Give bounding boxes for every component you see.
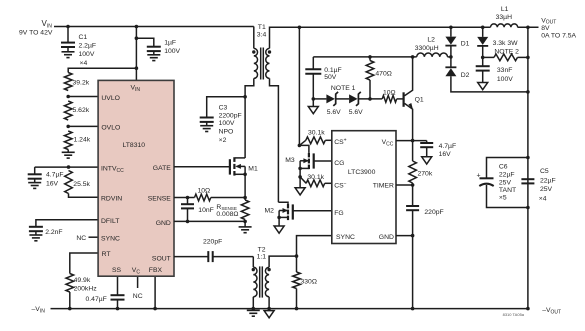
wire SENSE [174, 197, 195, 199]
wire SS [117, 276, 119, 295]
node timer rail junction [411, 307, 415, 311]
pin SOUT label [152, 255, 171, 262]
node SENSE junction [186, 196, 190, 200]
svg-text:1µF: 1µF [164, 40, 176, 47]
svg-text:200kHz: 200kHz [74, 285, 98, 292]
node M1 source dot [243, 173, 247, 177]
transistor M1 [230, 157, 245, 175]
svg-text:LTC3900: LTC3900 [348, 169, 376, 176]
svg-text:NC: NC [76, 235, 86, 242]
label VOUT [541, 17, 576, 39]
label D1 [461, 40, 470, 47]
core T1 [261, 48, 264, 80]
label 5.62k [73, 107, 90, 114]
svg-text:D1: D1 [461, 40, 470, 47]
pin GATE label [153, 165, 171, 172]
wire 1uF branch [136, 38, 153, 47]
wire DFILT [36, 220, 98, 227]
label LTC3900 [348, 169, 376, 176]
wire T1 secondary bottom to M2 [270, 78, 279, 202]
wire C3 branch [207, 97, 245, 118]
pin FG label [334, 210, 343, 217]
label C5 value [539, 168, 556, 203]
wire zener anode [313, 98, 326, 100]
wire divider top [68, 68, 136, 72]
svg-text:8V: 8V [541, 25, 550, 32]
capacitor C5 [521, 179, 534, 183]
resistor 30.1k bottom [300, 177, 332, 187]
label 1uF value [164, 40, 180, 56]
svg-text:TANT: TANT [499, 187, 516, 194]
ground triangle 33nF [478, 71, 488, 90]
label figure number [503, 312, 525, 317]
label 5.6V right [349, 109, 363, 116]
wire C6 top [487, 158, 528, 179]
wire 4.7uF to ground [34, 179, 36, 183]
svg-text:10nF: 10nF [198, 207, 214, 214]
node VIN-C1 junction [66, 25, 70, 29]
inductor L1 [490, 24, 517, 27]
node 470ohm bottom junction [368, 97, 372, 101]
pin GND label [156, 220, 171, 227]
op-amp U1 LT8310 body [98, 80, 174, 276]
label NOTE 1 [331, 85, 356, 92]
svg-text:9V TO 42V: 9V TO 42V [19, 30, 53, 37]
svg-text:330Ω: 330Ω [301, 278, 317, 285]
svg-text:22µF: 22µF [499, 172, 515, 179]
svg-text:33nF: 33nF [497, 67, 513, 74]
label 220pF sout [203, 239, 222, 246]
svg-text:C1: C1 [79, 34, 88, 41]
pin RT label [102, 251, 111, 258]
svg-text:470Ω: 470Ω [375, 71, 391, 78]
capacitor C6 [477, 173, 494, 187]
pin UVLO label [101, 95, 120, 102]
pin SYNC label LTC [336, 234, 355, 241]
svg-text:5.62k: 5.62k [73, 107, 90, 114]
svg-text:NOTE 1: NOTE 1 [331, 85, 356, 92]
node C6 bottom junction [526, 206, 530, 210]
wire GATE to M1 [174, 166, 230, 168]
wire T1 secondary top [270, 27, 300, 48]
svg-text:GATE: GATE [153, 165, 171, 172]
ground RSENSE [239, 221, 252, 232]
wire C1 stub [67, 27, 69, 43]
label M3 [285, 157, 295, 164]
wire TIMER [396, 184, 413, 186]
svg-text:SS: SS [112, 267, 122, 274]
svg-text:GND: GND [379, 234, 394, 241]
label M2 [265, 208, 275, 215]
node T1 primary phase dot [252, 50, 255, 53]
node GND LTC junction [411, 234, 415, 238]
node VOUT junction [526, 26, 530, 30]
svg-text:T1: T1 [258, 24, 266, 31]
wire 1uF to ground [153, 51, 155, 55]
node snubber rail junction [481, 26, 485, 30]
node SS rail junction [116, 307, 120, 311]
capacitor 1uF [147, 47, 161, 51]
diode D2 [445, 67, 456, 76]
svg-text:4.7µF: 4.7µF [46, 172, 64, 179]
resistor 25.5k [65, 171, 73, 194]
ground 2.2nF [29, 235, 42, 241]
wire secondary top rail [270, 26, 539, 28]
pin GND label LTC [379, 234, 394, 241]
diode Z1 5.6V zener [326, 92, 338, 106]
wire M3 to ground [299, 177, 301, 188]
wire T2 secondary bottom [268, 297, 270, 309]
label NC VC [133, 293, 143, 300]
wire UVLO [68, 96, 98, 98]
label 470ohm [375, 71, 391, 78]
transformer T2 label [257, 247, 267, 261]
svg-text:SENSE: SENSE [148, 195, 172, 202]
capacitor 2.2nF [29, 227, 43, 231]
label 10ohm sense [198, 187, 211, 194]
pin CG label [334, 160, 344, 167]
wire SYNC net [297, 236, 332, 257]
wire 220pF to T2 [213, 256, 254, 258]
label -VIN [32, 306, 46, 314]
wire D1 from rail [450, 27, 452, 36]
winding T1 primary [254, 48, 258, 78]
svg-text:3.3k 3W: 3.3k 3W [493, 40, 519, 47]
node M3 drain junction [298, 144, 302, 148]
label L1 [496, 6, 512, 21]
label 4.7uF VCC [439, 143, 457, 158]
winding T2 primary [253, 267, 257, 297]
ground C3 [200, 126, 213, 132]
wire 2.2nF to ground [35, 231, 37, 235]
node C3 junction [243, 95, 247, 99]
svg-text:33µH: 33µH [496, 14, 512, 21]
wire timer cap to rail [412, 210, 414, 308]
capacitor 10nF [181, 198, 194, 222]
node M3 CS- junction [298, 175, 302, 179]
svg-text:50V: 50V [324, 74, 337, 81]
svg-text:10Ω: 10Ω [198, 187, 211, 194]
label C3 value [219, 105, 242, 144]
label 49.9k 200kHz [74, 277, 98, 292]
svg-text:M2: M2 [265, 208, 275, 215]
node 3.3k output junction [526, 56, 530, 60]
label L2 [415, 37, 439, 53]
wire GND LTC [396, 235, 413, 237]
wire node to D2 [450, 57, 452, 67]
svg-text:16V: 16V [46, 181, 59, 188]
svg-text:L1: L1 [501, 6, 509, 13]
node T2 secondary phase dot [267, 268, 270, 271]
pin VCC label [382, 139, 394, 147]
svg-text:×5: ×5 [499, 194, 507, 201]
svg-text:100V: 100V [497, 76, 513, 83]
pin TIMER label [373, 182, 394, 189]
pin OVLO label [101, 125, 120, 132]
wire RDVIN [69, 194, 99, 198]
ground T2 primary [247, 310, 260, 316]
wire GND pin [174, 220, 245, 222]
ground triangle M3 [295, 188, 305, 195]
wire FG [293, 210, 332, 212]
wire CG [314, 160, 332, 162]
label 1.24k [74, 137, 91, 144]
wire bottom rail [51, 308, 529, 310]
svg-text:1.24k: 1.24k [74, 137, 91, 144]
node D2 output junction [526, 90, 530, 94]
capacitor 220pF timer [406, 185, 419, 210]
node rail M3 junction [298, 26, 302, 30]
svg-text:D2: D2 [461, 72, 470, 79]
wire OVLO [68, 125, 98, 127]
svg-text:VIN: VIN [42, 19, 53, 29]
svg-text:1:1: 1:1 [257, 254, 267, 261]
node T2 primary rail dot [252, 307, 256, 311]
wire zener middle [336, 98, 349, 100]
svg-text:5.6V: 5.6V [327, 109, 341, 116]
node OVLO tap [66, 125, 70, 129]
ground 4.7uF [28, 183, 41, 189]
node Q1 collector junction [411, 55, 415, 59]
node FBX rail junction [153, 307, 157, 311]
diode D3 snubber [477, 37, 488, 46]
node UVLO divider top junction [135, 66, 139, 70]
resistor 470ohm [366, 57, 374, 99]
svg-text:TIMER: TIMER [373, 182, 394, 189]
ground triangle zener [308, 99, 318, 114]
svg-text:NC: NC [133, 293, 143, 300]
svg-text:5.6V: 5.6V [349, 109, 363, 116]
wire snubber from rail [482, 27, 484, 37]
node VIN column junction [135, 25, 139, 29]
wire SYNC to 330ohm [296, 256, 298, 272]
wire 330ohm to rail [296, 289, 298, 309]
svg-text:4.7µF: 4.7µF [439, 143, 457, 150]
label 2.2nF [45, 229, 62, 236]
ground triangle M2 [274, 226, 284, 233]
capacitor 0.47uF [111, 295, 125, 299]
wire 0.1uF column [312, 57, 314, 69]
node C6 top junction [526, 156, 530, 160]
svg-text:LT8310: LT8310 [123, 142, 146, 149]
svg-text:SOUT: SOUT [152, 255, 171, 262]
label C6 value [499, 163, 516, 201]
op-amp U2 LTC3900 body [332, 131, 396, 244]
transistor M3 [299, 145, 313, 169]
svg-text:NOTE 2: NOTE 2 [494, 48, 519, 55]
node D1 D2 junction [449, 55, 453, 59]
label 3.3k 3W [493, 40, 520, 55]
label 10nF [198, 207, 214, 214]
winding T2 secondary [265, 267, 269, 297]
svg-text:Q1: Q1 [415, 96, 424, 103]
transistor M2 [278, 202, 292, 220]
pin FBX label [149, 267, 163, 274]
svg-text:–VIN: –VIN [32, 306, 46, 314]
label 330ohm [301, 278, 317, 285]
svg-text:100V: 100V [164, 48, 180, 55]
wire M1 source down [244, 174, 246, 200]
diode D1 [445, 37, 456, 46]
svg-text:L2: L2 [427, 37, 435, 44]
svg-text:C3: C3 [219, 105, 228, 112]
svg-text:10Ω: 10Ω [383, 89, 396, 96]
label D2 [461, 72, 470, 79]
wire RT [70, 253, 98, 274]
svg-text:22µF: 22µF [540, 177, 556, 184]
node RT rail junction [68, 307, 72, 311]
resistor 30.1k top [299, 137, 331, 146]
capacitor 220pF sout [208, 251, 212, 262]
svg-text:16V: 16V [439, 151, 452, 158]
svg-text:T2: T2 [258, 247, 266, 254]
label 25.5k [73, 181, 90, 188]
label 10ohm base [383, 89, 396, 96]
transformer T1 label [257, 24, 267, 38]
pin VIN label [131, 85, 141, 93]
label NC SYNC [76, 235, 86, 242]
pin RDVIN label [101, 196, 122, 203]
resistor 5.62k [64, 101, 72, 120]
node UVLO tap [66, 95, 70, 99]
node T1 secondary phase dot [268, 50, 271, 53]
ground divider bottom [62, 150, 75, 159]
wire D1 to node [450, 46, 452, 57]
node RSENSE bottom dot [243, 220, 247, 224]
svg-text:220pF: 220pF [203, 239, 222, 246]
wire VIN column [135, 27, 137, 81]
node M2 source dot [277, 216, 281, 220]
pin CS+ label [334, 138, 346, 146]
wire SOUT [174, 256, 208, 258]
node snubber junction [481, 56, 485, 60]
wire T1 primary top [253, 27, 255, 49]
svg-text:M3: M3 [285, 157, 295, 164]
wire T2 primary top [252, 257, 254, 268]
svg-text:8310 TA05a: 8310 TA05a [503, 312, 525, 317]
wire mid rail [313, 56, 416, 58]
winding T1 secondary [266, 48, 270, 78]
node VIN input label [19, 19, 53, 37]
node zener anode junction [312, 97, 316, 101]
label Q1 [415, 96, 424, 103]
svg-text:M1: M1 [248, 165, 258, 172]
wire FBX [154, 276, 156, 308]
pin DFILT label [101, 218, 119, 225]
resistor 330ohm [293, 272, 301, 289]
wire T2 primary bottom [252, 297, 254, 309]
node 330ohm rail dot [295, 307, 299, 311]
node INTVCC junction [67, 165, 71, 169]
wire D2 anode to output column [451, 76, 528, 92]
svg-text:+: + [477, 173, 481, 180]
svg-text:2200pF: 2200pF [219, 112, 242, 119]
svg-text:×4: ×4 [539, 195, 547, 202]
diode Z2 5.6V zener [349, 92, 361, 106]
svg-text:×2: ×2 [219, 137, 227, 144]
label C1 value [79, 34, 97, 67]
svg-text:49.9k: 49.9k [74, 277, 91, 284]
svg-text:–VOUT: –VOUT [542, 307, 561, 315]
pin VC label [132, 267, 141, 275]
wire VCC [396, 140, 427, 142]
wire VIN top rail [54, 26, 254, 28]
svg-text:39.2k: 39.2k [73, 80, 90, 87]
resistor 1.24k [64, 131, 72, 150]
svg-text:SYNC: SYNC [101, 235, 120, 242]
capacitor C1 [61, 43, 75, 47]
inductor L2 [417, 53, 448, 57]
svg-text:CG: CG [334, 160, 344, 167]
svg-text:25V: 25V [540, 186, 553, 193]
svg-text:220pF: 220pF [424, 209, 443, 216]
svg-text:UVLO: UVLO [101, 95, 120, 102]
svg-text:30.1k: 30.1k [308, 130, 325, 137]
svg-text:FG: FG [334, 210, 343, 217]
svg-text:RDVIN: RDVIN [101, 196, 122, 203]
resistor 10ohm base [382, 96, 397, 103]
capacitor 4.7uF INTVCC [28, 174, 42, 178]
svg-text:25V: 25V [499, 179, 512, 186]
wire SS cap to rail [117, 300, 119, 309]
svg-text:C5: C5 [540, 168, 549, 175]
label 220pF timer [424, 209, 443, 216]
wire 10ohm to Q1 base [397, 98, 403, 100]
pin SENSE label [148, 195, 172, 202]
svg-text:25.5k: 25.5k [73, 181, 90, 188]
node T2 secondary rail dot [267, 307, 271, 311]
svg-text:0A TO 7.5A: 0A TO 7.5A [541, 32, 576, 39]
label 270k [418, 171, 433, 178]
wire M3 source down [299, 168, 301, 177]
svg-text:SYNC: SYNC [336, 234, 355, 241]
node T2 primary phase dot [252, 268, 255, 271]
label 0.47uF [86, 296, 107, 303]
wire C1 to ground [67, 47, 69, 52]
resistor 10ohm sense [195, 194, 211, 201]
svg-text:OVLO: OVLO [101, 125, 120, 132]
ground triangle T2 secondary [264, 311, 274, 318]
svg-text:FBX: FBX [149, 267, 163, 274]
svg-text:×4: ×4 [80, 60, 88, 67]
svg-text:270k: 270k [418, 171, 433, 178]
label 30.1k top [308, 130, 325, 137]
node mid rail 470 junction [368, 55, 372, 59]
resistor 39.2k [64, 73, 72, 91]
svg-text:3300µH: 3300µH [415, 45, 439, 52]
label 30.1k bottom [307, 174, 324, 181]
wire VC NC stub [137, 276, 139, 288]
pin INTVCC label [101, 165, 124, 173]
wire 4.7uF stub [34, 167, 36, 174]
wire secondary rail to M3 [298, 27, 300, 145]
resistor 270k [409, 141, 417, 185]
wire SYNC NC stub [89, 236, 99, 238]
capacitor 4.7uF VCC [420, 141, 433, 157]
capacitor 33nF [476, 57, 490, 70]
svg-text:0.008Ω: 0.008Ω [216, 211, 238, 218]
node RSENSE top dot [243, 196, 247, 200]
label 33nF [497, 67, 513, 83]
svg-text:GND: GND [156, 220, 171, 227]
core T2 [260, 266, 263, 297]
label LT8310 [123, 142, 146, 149]
svg-text:2.2nF: 2.2nF [45, 229, 62, 236]
node TIMER junction [411, 183, 415, 187]
label 5.6V left [327, 109, 341, 116]
node GND 10nF dot [186, 220, 190, 224]
node VCC junction [411, 139, 415, 143]
